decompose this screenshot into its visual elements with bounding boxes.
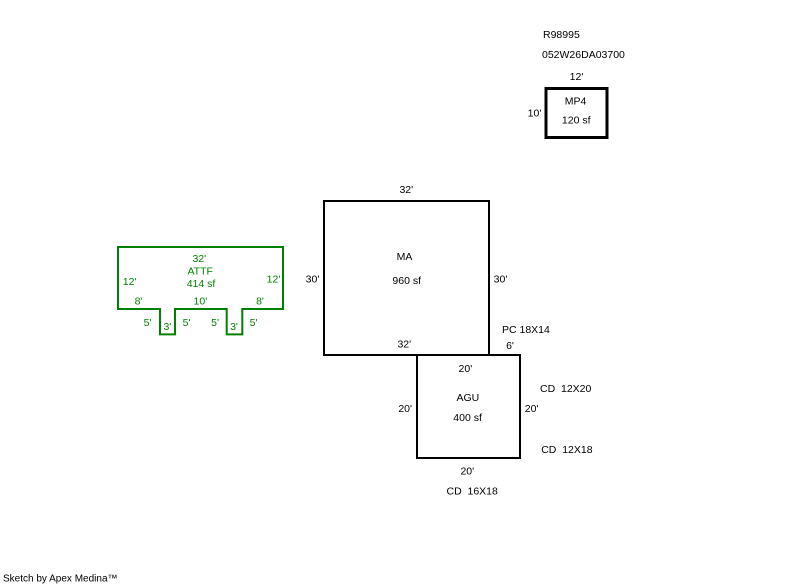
svg-text:R98995: R98995 (543, 29, 580, 41)
svg-text:5': 5' (144, 317, 152, 329)
svg-text:30': 30' (494, 274, 508, 286)
svg-text:8': 8' (256, 296, 264, 308)
svg-text:5': 5' (250, 317, 258, 329)
svg-text:10': 10' (528, 108, 542, 120)
svg-text:6': 6' (506, 340, 514, 352)
svg-text:3': 3' (163, 321, 171, 333)
svg-text:CD 16X18: CD 16X18 (447, 486, 499, 498)
svg-text:20': 20' (459, 363, 473, 375)
svg-text:MA: MA (397, 251, 413, 263)
svg-text:120 sf: 120 sf (562, 115, 591, 127)
svg-text:32': 32' (192, 253, 206, 265)
svg-text:414 sf: 414 sf (187, 278, 216, 290)
svg-text:32': 32' (399, 184, 413, 196)
svg-text:32': 32' (397, 339, 411, 351)
svg-text:30': 30' (306, 274, 320, 286)
svg-text:5': 5' (211, 317, 219, 329)
svg-text:12': 12' (267, 274, 281, 286)
svg-text:10': 10' (194, 296, 208, 308)
svg-text:AGU: AGU (457, 392, 480, 404)
svg-text:Sketch by Apex Medina™: Sketch by Apex Medina™ (3, 574, 118, 585)
svg-text:052W26DA03700: 052W26DA03700 (542, 49, 625, 61)
svg-text:CD 12X18: CD 12X18 (541, 444, 593, 456)
svg-text:MP4: MP4 (565, 96, 587, 108)
svg-text:20': 20' (525, 403, 539, 415)
svg-text:400 sf: 400 sf (453, 412, 482, 424)
svg-text:PC 18X14: PC 18X14 (502, 324, 550, 336)
svg-text:20': 20' (398, 403, 412, 415)
svg-text:5': 5' (183, 317, 191, 329)
svg-text:12': 12' (570, 71, 584, 83)
svg-text:3': 3' (230, 321, 238, 333)
svg-text:CD 12X20: CD 12X20 (540, 383, 592, 395)
svg-text:20': 20' (460, 466, 474, 478)
svg-text:8': 8' (135, 296, 143, 308)
svg-text:960 sf: 960 sf (392, 275, 421, 287)
svg-text:12': 12' (123, 276, 137, 288)
svg-text:ATTF: ATTF (187, 266, 212, 278)
